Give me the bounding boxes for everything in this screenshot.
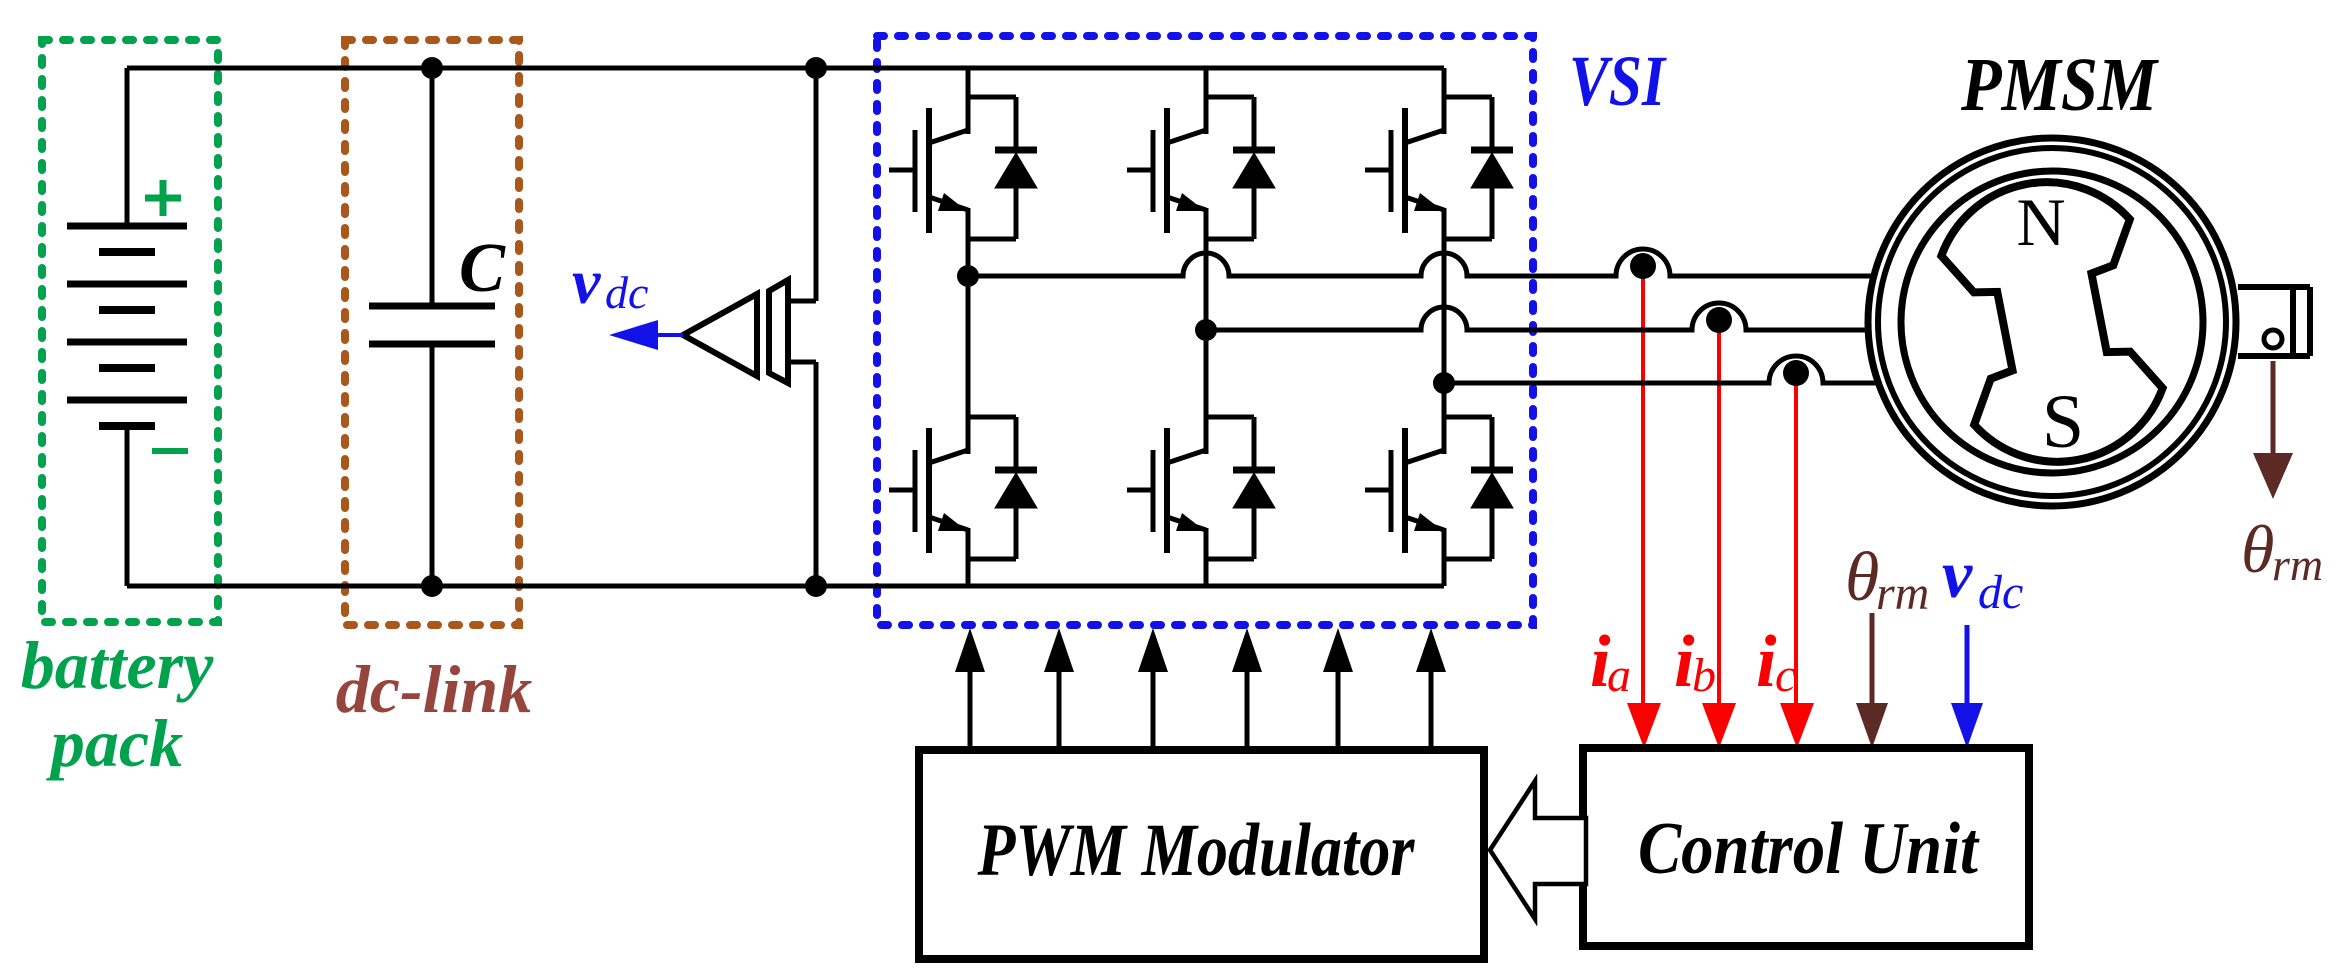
battery plus label bbox=[145, 180, 181, 216]
current sensor a dot bbox=[1630, 253, 1656, 279]
vdc output arrow bbox=[609, 320, 683, 350]
theta_rm shaft arrow bbox=[2253, 361, 2293, 499]
node vdc tap top bbox=[805, 57, 827, 79]
svg-text:dc: dc bbox=[1978, 566, 2023, 619]
PWM gate arrow 4 bbox=[1232, 628, 1262, 750]
node vdc tap bottom bbox=[805, 575, 827, 597]
vdc arrow to control unit bbox=[1951, 625, 1983, 748]
label ic bbox=[1756, 621, 1796, 703]
wire leg B lower emitter bbox=[1204, 559, 1209, 586]
battery minus label bbox=[152, 448, 188, 454]
hollow arrow control to pwm bbox=[1490, 781, 1586, 919]
battery pack dashed box bbox=[42, 40, 218, 622]
capacitor label C bbox=[459, 230, 506, 307]
svg-text:VSI: VSI bbox=[1569, 41, 1667, 121]
svg-text:i: i bbox=[1756, 621, 1777, 703]
theta_rm arrow to control unit bbox=[1856, 613, 1888, 748]
svg-text:PWM Modulator: PWM Modulator bbox=[977, 809, 1415, 892]
label S bbox=[2042, 380, 2084, 464]
current sensor red line b bbox=[1717, 322, 1721, 703]
wire leg A lower emitter bbox=[966, 559, 971, 586]
svg-text:PMSM: PMSM bbox=[1960, 43, 2159, 127]
node phase B bbox=[1195, 319, 1217, 341]
IGBT Q2 lower leg A bbox=[889, 388, 1037, 559]
IGBT Q1 upper leg A bbox=[889, 68, 1037, 239]
svg-text:a: a bbox=[1607, 649, 1631, 702]
battery pack label bbox=[21, 627, 214, 781]
IGBT Q3 upper leg B bbox=[1127, 68, 1275, 239]
dc-link label bbox=[336, 651, 532, 727]
node phase C bbox=[1433, 372, 1455, 394]
PWM gate arrow 5 bbox=[1323, 628, 1353, 750]
vdc label bbox=[572, 246, 648, 318]
svg-text:N: N bbox=[2016, 184, 2065, 260]
VSI label bbox=[1569, 41, 1667, 121]
wire vdc tap lower bbox=[788, 362, 816, 586]
svg-text:Control Unit: Control Unit bbox=[1638, 808, 1980, 890]
IGBT Q4 lower leg B bbox=[1127, 388, 1275, 559]
PWM Modulator label bbox=[977, 809, 1415, 892]
wire leg B vertical bbox=[1204, 239, 1209, 454]
red arrowhead ia bbox=[1627, 703, 1661, 748]
capacitor C bbox=[369, 68, 495, 586]
svg-text:rm: rm bbox=[1876, 567, 1929, 620]
PMSM label bbox=[1960, 43, 2159, 127]
node capacitor bottom bbox=[421, 575, 443, 597]
PWM gate arrow 2 bbox=[1044, 628, 1074, 750]
vdc sensor plate bbox=[769, 280, 788, 383]
PMSM motor inner circle bbox=[1901, 171, 2203, 473]
PWM gate arrow 6 bbox=[1416, 628, 1446, 750]
svg-text:pack: pack bbox=[46, 705, 183, 781]
node capacitor top bbox=[421, 57, 443, 79]
svg-text:battery: battery bbox=[21, 627, 214, 703]
label vdc (control unit) bbox=[1942, 536, 2023, 619]
label theta_rm (control unit) bbox=[1845, 539, 1929, 620]
label theta_rm (shaft) bbox=[2241, 511, 2323, 590]
svg-text:θ: θ bbox=[2241, 511, 2274, 587]
node phase A bbox=[957, 265, 979, 287]
Control Unit label bbox=[1638, 808, 1980, 890]
motor shaft bbox=[2238, 287, 2310, 356]
IGBT Q6 lower leg C bbox=[1365, 388, 1513, 559]
svg-text:c: c bbox=[1775, 649, 1796, 702]
label ia bbox=[1590, 621, 1631, 703]
svg-text:S: S bbox=[2042, 380, 2084, 464]
Control Unit box bbox=[1583, 748, 2029, 946]
PWM gate arrow 1 bbox=[955, 628, 985, 750]
PMSM motor outer circle bbox=[1868, 138, 2236, 506]
PMSM rotor magnet bbox=[1931, 166, 2173, 478]
wire phase C bbox=[1444, 356, 1876, 383]
wire bottom rail bbox=[127, 584, 1444, 589]
svg-text:C: C bbox=[459, 230, 506, 307]
current sensor red line c bbox=[1794, 373, 1798, 703]
wire top rail bbox=[127, 66, 1444, 71]
wire leg A vertical bbox=[966, 239, 971, 454]
PWM Modulator box bbox=[919, 750, 1484, 959]
wire phase A bbox=[968, 249, 1871, 276]
wire leg C vertical bbox=[1442, 239, 1447, 454]
label N bbox=[2016, 184, 2065, 260]
svg-text:θ: θ bbox=[1845, 539, 1879, 616]
red arrowhead ic bbox=[1780, 703, 1814, 748]
label ib bbox=[1674, 621, 1716, 703]
VSI dashed box bbox=[877, 36, 1533, 625]
wire phase B bbox=[1206, 303, 1866, 330]
current sensor c dot bbox=[1783, 360, 1809, 386]
svg-text:v: v bbox=[572, 246, 601, 317]
svg-text:dc: dc bbox=[605, 267, 648, 318]
svg-text:b: b bbox=[1692, 649, 1716, 702]
IGBT Q5 upper leg C bbox=[1365, 68, 1513, 239]
svg-text:v: v bbox=[1942, 536, 1973, 612]
red arrowhead ib bbox=[1702, 703, 1736, 748]
svg-text:dc-link: dc-link bbox=[336, 651, 532, 727]
svg-text:rm: rm bbox=[2272, 539, 2323, 590]
wire leg C lower emitter bbox=[1442, 559, 1447, 586]
PWM gate arrow 3 bbox=[1138, 628, 1168, 750]
vdc sensor amplifier triangle bbox=[683, 294, 757, 376]
wire vdc tap upper bbox=[788, 68, 816, 301]
current sensor b dot bbox=[1706, 307, 1732, 333]
current sensor red line a bbox=[1641, 266, 1645, 703]
battery B1 bbox=[67, 68, 187, 586]
PMSM motor middle circle bbox=[1878, 148, 2226, 496]
dc-link dashed box bbox=[345, 40, 519, 625]
